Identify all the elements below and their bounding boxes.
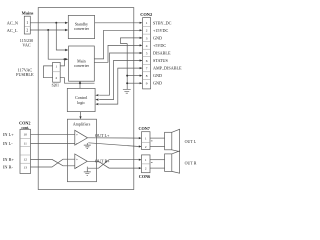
wire GND pin8: [127, 75, 140, 77]
arrow into main converter AC_N: [65, 49, 68, 51]
svg-text:3: 3: [146, 36, 148, 40]
svg-text:1: 1: [146, 21, 148, 25]
arrow into standby pin AC_L: [65, 29, 68, 31]
connector CON2 body: [143, 18, 151, 89]
board outline: [38, 8, 134, 190]
wire IN R- crossover: [31, 159, 75, 167]
svg-text:12: 12: [24, 158, 28, 162]
wire STATUS pin6: [99, 61, 142, 100]
svg-text:2: 2: [145, 167, 147, 171]
wire +15VDC pin2: [94, 30, 140, 59]
block amplifiers: [67, 119, 96, 182]
junction S201 tap: [64, 58, 66, 60]
arrow pin4: [140, 44, 143, 46]
switch S201: [53, 62, 61, 82]
arrow into CON6 pin1: [139, 159, 142, 161]
svg-text:+15VDC: +15VDC: [153, 28, 168, 33]
junction AC_L drop: [47, 29, 49, 31]
svg-text:cont.: cont.: [21, 126, 29, 130]
speaker OUT R: [165, 154, 172, 172]
wire CON6 to speaker R bottom: [150, 167, 165, 169]
speaker OUT L: [165, 132, 172, 150]
wire CON7 to speaker L bottom: [150, 146, 165, 148]
arrow pin8: [140, 75, 143, 77]
wire control logic to main converter: [79, 82, 81, 89]
wire +5VDC pin4: [94, 45, 140, 62]
arrow STATUS into control logic: [95, 99, 98, 101]
block control logic: [67, 88, 95, 111]
wire S201 pin2 under main converter: [60, 78, 94, 84]
wire DISABLE pin5: [99, 53, 142, 95]
svg-text:1: 1: [56, 64, 58, 68]
connector J1 Mains: [24, 16, 30, 34]
svg-text:2: 2: [26, 28, 28, 32]
svg-text:2: 2: [145, 145, 147, 149]
block main converter: [69, 46, 95, 81]
arrow into CON7 pin2: [139, 145, 142, 147]
svg-text:13: 13: [24, 165, 28, 169]
svg-text:S201: S201: [52, 84, 60, 88]
wire CON6 to speaker R top: [150, 159, 165, 161]
arrow into CON6 pin2: [139, 167, 142, 169]
op-amp A2 right channel: [75, 154, 88, 169]
wire IN L+ to amp: [31, 133, 75, 135]
block standby converter: [68, 15, 94, 38]
svg-text:Amplifiers: Amplifiers: [73, 121, 91, 126]
svg-text:+: +: [76, 133, 78, 137]
junction GND pin9: [126, 82, 128, 84]
wire S201 pin1 to AC_L line: [60, 59, 64, 66]
arrow into main converter AC_L: [65, 58, 68, 60]
svg-text:converter: converter: [74, 63, 90, 68]
wire OUT L-: [88, 143, 139, 147]
svg-text:IN R-: IN R-: [3, 165, 13, 170]
wire GND pin3: [121, 38, 143, 44]
svg-text:IN L+: IN L+: [3, 132, 14, 137]
wire AC_L to main converter: [48, 30, 65, 59]
wire OUT L+: [88, 137, 139, 139]
wire GND pin9: [127, 82, 140, 84]
wire control logic to amplifiers: [80, 112, 82, 119]
arrow pin5: [140, 52, 143, 54]
arrow AMP_DISABLE into control logic: [95, 103, 98, 105]
svg-text:11: 11: [24, 142, 28, 146]
svg-text:1: 1: [26, 21, 28, 25]
svg-text:VAC: VAC: [22, 42, 30, 47]
arrow DISABLE into control logic: [95, 94, 98, 96]
arrow pin1: [140, 22, 143, 24]
svg-text:FUSIBLE: FUSIBLE: [16, 72, 34, 77]
wire S201 jumper bracket: [44, 66, 53, 78]
svg-text:AMP_DISABLE: AMP_DISABLE: [153, 66, 182, 71]
arrow pin9: [140, 82, 143, 84]
svg-text:AC_N: AC_N: [7, 20, 18, 25]
svg-text:STATUS: STATUS: [153, 58, 169, 63]
junction GND pin8: [126, 75, 128, 77]
wire AMP_DISABLE pin7: [99, 68, 142, 104]
svg-text:7: 7: [146, 67, 148, 71]
svg-text:OUT R: OUT R: [185, 160, 197, 165]
svg-text:8: 8: [146, 74, 148, 78]
ground symbol amp1: [84, 143, 91, 149]
svg-text:logic: logic: [77, 100, 85, 105]
svg-text:AC_L: AC_L: [7, 28, 18, 33]
wire AC_L: [30, 29, 66, 31]
svg-text:CON6: CON6: [139, 174, 150, 179]
svg-text:OUT L: OUT L: [185, 139, 197, 144]
svg-text:+: +: [76, 158, 78, 162]
svg-text:4: 4: [146, 44, 148, 48]
arrow down into amplifiers: [79, 116, 81, 119]
svg-text:2: 2: [146, 29, 148, 33]
svg-text:converter: converter: [74, 26, 90, 31]
arrow into CON7 pin1: [139, 137, 142, 139]
connector CON6 body: [142, 155, 151, 173]
svg-text:9: 9: [146, 82, 148, 86]
svg-text:IN L-: IN L-: [3, 141, 13, 146]
arrow pin3: [140, 37, 143, 39]
svg-text:+5VDC: +5VDC: [153, 43, 166, 48]
arrow pin6: [140, 59, 143, 61]
wire AC_N to main converter: [56, 23, 65, 50]
svg-text:IN R+: IN R+: [3, 157, 14, 162]
svg-text:1: 1: [145, 137, 147, 141]
ground symbol GND bus: [123, 89, 131, 93]
svg-text:GND: GND: [153, 73, 162, 78]
svg-text:GND: GND: [153, 35, 162, 40]
wire OUT R- crossover: [88, 160, 139, 169]
wire STBY_DC pin1: [95, 22, 141, 24]
junction AC_N drop: [55, 22, 57, 24]
arrow into standby pin AC_N: [65, 22, 68, 24]
wire IN R+ crossover: [31, 159, 75, 165]
wire CON7 to speaker L top: [150, 137, 165, 139]
polarity mark CON7 minus: [151, 140, 153, 142]
svg-text:1: 1: [145, 158, 147, 162]
svg-text:OUT R+: OUT R+: [95, 158, 110, 163]
svg-text:10: 10: [24, 133, 28, 137]
wire OUT R+ crossover: [87, 161, 139, 168]
junction under main converter: [79, 82, 81, 84]
polarity mark CON6 minus: [151, 161, 153, 163]
arrow pin2: [140, 29, 143, 31]
svg-text:DISABLE: DISABLE: [153, 51, 171, 56]
connector CON7 body: [142, 132, 151, 150]
op-amp A1 left channel: [75, 130, 88, 145]
arrow pin7: [140, 67, 143, 69]
arrow up into main converter: [79, 81, 81, 84]
svg-text:STBY_DC: STBY_DC: [153, 20, 172, 25]
svg-text:Mains: Mains: [22, 11, 34, 16]
svg-text:CON7: CON7: [139, 126, 150, 131]
svg-text:5: 5: [146, 51, 148, 55]
svg-text:CON2: CON2: [140, 12, 152, 17]
svg-text:OUT L+: OUT L+: [95, 133, 110, 138]
ground symbol amp2: [84, 167, 91, 176]
svg-text:6: 6: [146, 59, 148, 63]
svg-text:GND: GND: [153, 81, 162, 86]
svg-text:2: 2: [56, 76, 58, 80]
connector CON2 cont body: [20, 129, 31, 173]
wire AC_N: [30, 22, 66, 24]
wire GND bus: [126, 44, 128, 90]
wire IN L- to amp: [31, 142, 75, 144]
